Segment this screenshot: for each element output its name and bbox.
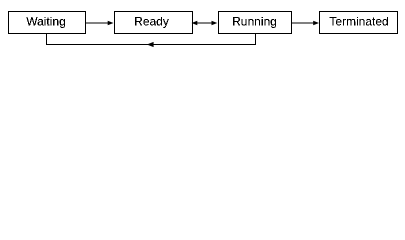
svg-text:Ready: Ready xyxy=(134,15,169,29)
svg-text:Waiting: Waiting xyxy=(26,15,66,29)
svg-text:Running: Running xyxy=(232,15,277,29)
svg-text:Terminated: Terminated xyxy=(329,15,388,29)
